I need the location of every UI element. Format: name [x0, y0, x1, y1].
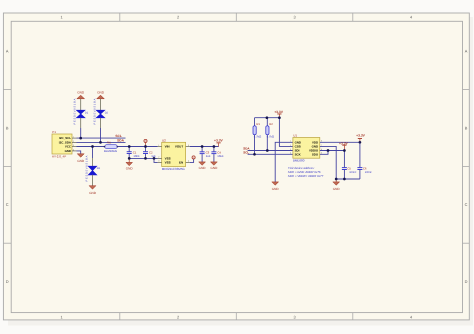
svg-text:D: D — [6, 279, 9, 284]
svg-text:1: 1 — [61, 314, 63, 319]
ground flag right-left — [272, 182, 280, 191]
ground flag under C4 — [210, 162, 218, 170]
wire SDA to SDI — [248, 150, 293, 152]
svg-text:GND: GND — [272, 187, 280, 191]
+3.3V flag top — [274, 110, 284, 118]
diode D1 TVS on SCL — [74, 98, 89, 138]
junction VDD/C6 — [359, 141, 362, 144]
svg-text:BLM18AG: BLM18AG — [104, 149, 117, 153]
svg-text:B: B — [465, 125, 468, 130]
svg-text:R2: R2 — [269, 122, 273, 126]
connector pin stubs — [72, 138, 77, 151]
junction GND rail right/C5 — [343, 178, 346, 181]
junction VCC/C1 — [128, 145, 131, 148]
svg-text:+3.3V: +3.3V — [214, 139, 224, 143]
svg-text:ME6211C33M5G: ME6211C33M5G — [162, 167, 186, 171]
address note — [288, 166, 324, 178]
svg-text:GND: GND — [89, 191, 97, 195]
+3.3V flag on VDDIO — [339, 141, 349, 150]
vcc circle flag on EN — [192, 156, 195, 159]
capacitor C4 out — [211, 147, 224, 162]
svg-text:GND: GND — [77, 91, 85, 95]
ground flag under connector GND pin — [77, 154, 85, 163]
regulator pin numbers — [158, 144, 190, 163]
junction VOUT/C4 — [213, 145, 216, 148]
junction SDA/R2 — [266, 149, 269, 152]
junction pullup rail/R2 — [266, 116, 269, 119]
capacitor C3 out — [200, 147, 211, 162]
vcc circle net flag — [144, 139, 147, 146]
svg-text:100nF: 100nF — [365, 171, 373, 174]
wire GND pin — [77, 151, 81, 154]
sensor U1 body — [293, 138, 320, 159]
svg-text:GND: GND — [126, 167, 134, 171]
junction pullup rail/CSB — [278, 116, 281, 119]
junction VDDIO/C5 — [343, 149, 346, 152]
svg-text:C: C — [465, 202, 468, 207]
junction VCC/D3 — [91, 145, 94, 148]
svg-text:VCC: VCC — [65, 145, 72, 149]
svg-text:GND: GND — [199, 166, 207, 170]
ground flag left rail — [126, 158, 134, 170]
capacitor C1 — [127, 147, 140, 159]
junction SDA/D2 — [99, 141, 102, 144]
wire VDDIO — [320, 150, 345, 152]
svg-text:A: A — [465, 49, 468, 54]
svg-text:VIN: VIN — [165, 145, 170, 149]
+3.3V flag on VDD — [356, 133, 366, 142]
svg-text:SCK: SCK — [295, 152, 302, 156]
svg-text:2: 2 — [177, 15, 179, 20]
ground flag above D1 — [77, 91, 85, 99]
EN net wire — [190, 159, 194, 162]
svg-text:10uF: 10uF — [217, 154, 224, 158]
wire GND right drop — [320, 146, 336, 179]
wire VDD — [320, 141, 360, 143]
wire VOUT — [190, 146, 219, 148]
connector P1 body — [52, 134, 72, 154]
diode D3 TVS on VCC — [85, 147, 100, 186]
wire VCC to ferrite — [77, 146, 105, 148]
svg-text:PESD5V0S1BA: PESD5V0S1BA — [93, 98, 96, 125]
svg-text:VSS: VSS — [165, 161, 171, 165]
wire ferrite to VIN — [118, 146, 158, 148]
svg-text:GND: GND — [77, 159, 85, 163]
svg-text:GND: GND — [333, 187, 341, 191]
svg-text:FB1: FB1 — [107, 141, 112, 144]
svg-text:3: 3 — [294, 15, 296, 20]
connector pin numbers — [73, 136, 75, 152]
svg-text:PESD5V0S1BA: PESD5V0S1BA — [85, 155, 88, 182]
ferrite bead FB1 — [104, 141, 118, 153]
svg-text:+3.3V: +3.3V — [339, 141, 349, 145]
svg-text:SDO = VDDIO: ADDR 0x77: SDO = VDDIO: ADDR 0x77 — [288, 174, 324, 178]
svg-text:SCL: SCL — [243, 150, 249, 154]
regulator pin labels — [165, 145, 184, 165]
svg-text:PESD5V0S1BA: PESD5V0S1BA — [74, 98, 77, 125]
resistor R1 — [253, 118, 261, 155]
bottom gnd rail right — [336, 178, 360, 180]
svg-text:+3.3V: +3.3V — [356, 133, 366, 137]
svg-text:GND: GND — [210, 166, 218, 170]
svg-text:100nF: 100nF — [349, 171, 357, 174]
resistor R2 — [266, 118, 274, 151]
junction SCL/D1 — [79, 137, 82, 140]
connector pin name labels — [59, 136, 72, 153]
junction GND rail right/flag — [335, 178, 338, 181]
capacitor C2 — [143, 147, 156, 159]
svg-text:SDA: SDA — [117, 139, 124, 143]
vss2 hookup — [154, 158, 158, 162]
svg-text:A: A — [6, 49, 9, 54]
regulator pin stubs — [158, 147, 190, 163]
ground flag below D3 — [89, 186, 97, 195]
sensor pin numbers — [290, 140, 323, 155]
junction GND rail/C2 — [144, 157, 147, 160]
capacitor C5 — [342, 151, 357, 180]
junction VCC/C2 — [144, 145, 147, 148]
svg-text:3: 3 — [294, 314, 296, 319]
svg-text:GND: GND — [97, 91, 105, 95]
sensor pin labels — [295, 140, 319, 156]
svg-text:HY-2.0_4P: HY-2.0_4P — [52, 155, 66, 159]
svg-text:D2: D2 — [105, 111, 109, 114]
svg-text:BME680: BME680 — [293, 159, 305, 163]
svg-text:VOUT: VOUT — [175, 145, 184, 149]
wire SCL — [77, 137, 126, 139]
svg-text:10nF: 10nF — [133, 154, 140, 158]
ground flag right rail — [333, 179, 341, 191]
svg-text:4.7kΩ: 4.7kΩ — [254, 134, 261, 138]
regulator U2 body — [162, 142, 186, 166]
svg-text:D1: D1 — [85, 111, 89, 114]
capacitor C6 — [357, 142, 372, 179]
junction VDDIO/SDO — [327, 149, 330, 152]
junction VOUT/C3 — [201, 145, 204, 148]
svg-text:2: 2 — [177, 314, 179, 319]
svg-text:SDO: SDO — [312, 152, 319, 156]
svg-text:4.7kΩ: 4.7kΩ — [267, 134, 274, 138]
svg-text:GND: GND — [65, 149, 71, 153]
GND pin wire and drop — [275, 142, 293, 182]
CSB tie to +3.3V rail — [279, 118, 293, 147]
ground flag under C3 — [199, 162, 207, 170]
wire SDA — [77, 141, 126, 143]
+3.3V flag at VOUT — [214, 139, 224, 147]
svg-text:R1: R1 — [256, 122, 260, 126]
svg-text:D: D — [465, 279, 468, 284]
svg-text:P1: P1 — [52, 130, 56, 134]
svg-text:U2: U2 — [162, 138, 166, 142]
gnd rail left section — [129, 157, 157, 159]
svg-text:C: C — [6, 202, 9, 207]
diode D2 TVS on SDA — [93, 98, 108, 142]
junction SCL/R1 — [253, 153, 256, 156]
svg-text:D3: D3 — [97, 167, 101, 170]
svg-text:B: B — [6, 125, 9, 130]
wire SCL to SCK — [248, 153, 293, 155]
svg-text:SCL: SCL — [115, 134, 121, 138]
junction GND rail/C1 — [128, 157, 131, 160]
svg-text:1: 1 — [61, 15, 63, 20]
svg-text:1uF: 1uF — [206, 154, 211, 158]
SDO tie to VDDIO — [320, 151, 328, 155]
junction GND rail/VSS — [153, 157, 156, 160]
ground flag above D2 — [97, 91, 105, 99]
svg-text:EN: EN — [179, 161, 183, 165]
svg-text:U1: U1 — [293, 134, 297, 138]
top pullup rail — [255, 117, 280, 119]
svg-text:+3.3V: +3.3V — [274, 110, 284, 114]
